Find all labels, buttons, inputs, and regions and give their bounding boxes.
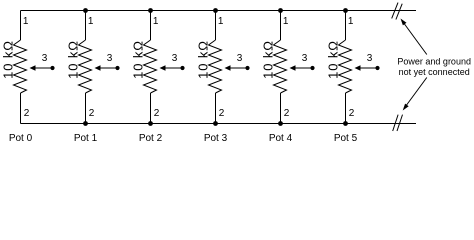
svg-text:2: 2 <box>89 108 95 119</box>
svg-text:3: 3 <box>367 53 373 64</box>
svg-text:Pot 0: Pot 0 <box>9 133 33 144</box>
svg-text:Pot 3: Pot 3 <box>204 133 228 144</box>
svg-text:2: 2 <box>154 108 160 119</box>
svg-text:Pot 1: Pot 1 <box>74 133 98 144</box>
svg-text:2: 2 <box>284 108 290 119</box>
svg-text:2: 2 <box>349 108 355 119</box>
svg-text:3: 3 <box>237 53 243 64</box>
svg-text:10 kΩ: 10 kΩ <box>66 40 81 79</box>
svg-text:10 kΩ: 10 kΩ <box>326 40 341 79</box>
svg-text:10 kΩ: 10 kΩ <box>131 40 146 79</box>
svg-text:10 kΩ: 10 kΩ <box>196 40 211 79</box>
svg-text:Pot 5: Pot 5 <box>334 133 358 144</box>
svg-text:Pot 2: Pot 2 <box>139 133 163 144</box>
svg-text:1: 1 <box>153 16 159 27</box>
svg-text:1: 1 <box>283 16 289 27</box>
svg-text:2: 2 <box>219 108 225 119</box>
svg-text:3: 3 <box>42 53 48 64</box>
svg-text:1: 1 <box>23 16 29 27</box>
svg-text:10 kΩ: 10 kΩ <box>1 40 16 79</box>
svg-text:10 kΩ: 10 kΩ <box>261 40 276 79</box>
svg-text:2: 2 <box>24 108 30 119</box>
svg-text:3: 3 <box>107 53 113 64</box>
svg-text:not yet connected: not yet connected <box>399 67 470 77</box>
svg-text:1: 1 <box>218 16 224 27</box>
svg-text:1: 1 <box>88 16 94 27</box>
svg-text:3: 3 <box>172 53 178 64</box>
svg-text:1: 1 <box>348 16 354 27</box>
svg-text:Pot 4: Pot 4 <box>269 133 293 144</box>
svg-text:Power and ground: Power and ground <box>397 56 471 66</box>
svg-text:3: 3 <box>302 53 308 64</box>
